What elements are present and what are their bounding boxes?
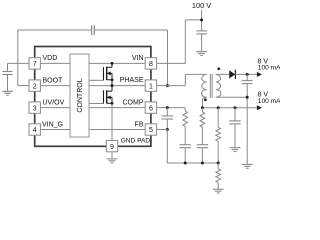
- svg-text:6: 6: [149, 105, 153, 112]
- wire UV/OV internal: [40, 107, 70, 109]
- wire VDD pin 7 to bypass capacitor: [8, 62, 29, 64]
- svg-text:GND PAD: GND PAD: [121, 137, 151, 144]
- wire FB pin 5: [157, 129, 168, 131]
- node Q1 drain to VIN rail: [111, 62, 114, 65]
- resistor compensation: [183, 108, 188, 145]
- ground GND pad: [107, 159, 118, 163]
- capacitor input 100 V: [196, 31, 207, 52]
- transistor Q2 low side MOSFET: [104, 86, 113, 104]
- wire COMP internal: [89, 107, 145, 109]
- pin 3 UV/OV: [29, 102, 40, 113]
- svg-text:1: 1: [149, 83, 153, 90]
- svg-text:VIN: VIN: [132, 55, 144, 62]
- ground feedback divider: [213, 189, 224, 193]
- arrow primary output: [257, 105, 262, 110]
- wire gate drive high side: [89, 79, 104, 81]
- wire pin 9 to ground: [111, 152, 113, 159]
- pin 8 VIN: [145, 58, 156, 69]
- wire gate drive low side: [89, 103, 104, 105]
- wire COMP pin 6: [157, 107, 186, 109]
- resistor feedforward: [200, 108, 205, 145]
- transformer secondary winding: [216, 74, 221, 97]
- svg-text:4: 4: [33, 127, 37, 134]
- ground primary output cap: [230, 148, 241, 152]
- svg-text:5: 5: [149, 127, 153, 134]
- node compensation cap to rail: [184, 162, 187, 165]
- node feedback divider top junction: [217, 106, 220, 109]
- transformer core: [210, 74, 212, 98]
- svg-text:100 V: 100 V: [192, 1, 211, 10]
- wire secondary top to diode: [216, 73, 229, 75]
- transformer primary winding: [202, 74, 207, 97]
- pin 4 VIN_G: [29, 124, 40, 135]
- svg-text:2: 2: [33, 83, 37, 90]
- pin 5 FB: [145, 124, 156, 135]
- svg-text:FB: FB: [135, 121, 144, 128]
- block CONTROL: [70, 54, 89, 137]
- capacitor primary output: [229, 108, 240, 148]
- svg-text:7: 7: [33, 61, 37, 68]
- wire low side source to GND pad: [111, 103, 113, 140]
- node PHASE bootstrap junction: [166, 84, 169, 87]
- wire FB internal: [89, 129, 145, 131]
- node feedforward cap to rail: [201, 162, 204, 165]
- capacitor VDD bypass: [2, 63, 12, 91]
- node isolated output cap junction: [246, 73, 249, 76]
- node FB junction: [166, 128, 169, 131]
- svg-text:100 mA: 100 mA: [258, 64, 280, 71]
- svg-text:100 mA: 100 mA: [258, 98, 280, 105]
- wire BOOT internal: [40, 85, 70, 87]
- wire bootstrap cap to PHASE node: [94, 30, 167, 86]
- ground VDD bypass: [2, 91, 13, 95]
- svg-text:COMP: COMP: [123, 100, 144, 107]
- svg-text:VIN_G: VIN_G: [42, 121, 63, 128]
- pin 9 GND PAD: [106, 140, 117, 151]
- wire VIN_G internal: [40, 129, 70, 131]
- pin 1 PHASE: [145, 80, 156, 91]
- resistor feedback lower: [216, 163, 221, 189]
- ground isolated output: [242, 164, 253, 168]
- wire secondary bottom return: [216, 96, 247, 98]
- svg-text:UV/OV: UV/OV: [43, 99, 65, 106]
- pin 2 BOOT: [29, 80, 40, 91]
- node Q2 source body tie: [111, 102, 114, 105]
- wire PHASE internal rail: [89, 85, 145, 87]
- node feedback divider mid: [217, 162, 220, 165]
- polarity dot secondary: [217, 67, 220, 70]
- svg-text:PHASE: PHASE: [120, 77, 144, 84]
- wire FB to bottom rail: [167, 130, 218, 164]
- capacitor compensation: [180, 145, 191, 163]
- wire VDD internal: [40, 62, 70, 64]
- node output cap junction: [234, 106, 237, 109]
- node Q1 source body tie: [111, 78, 114, 81]
- wire primary output rail: [202, 107, 257, 109]
- wire PHASE pin 1 to transformer: [157, 74, 207, 85]
- node secondary return junction: [246, 96, 249, 99]
- arrow isolated output: [257, 72, 262, 77]
- svg-text:VDD: VDD: [43, 55, 58, 62]
- node PHASE switch junction: [111, 84, 114, 87]
- svg-text:9: 9: [110, 144, 114, 151]
- pin 7 VDD: [29, 58, 40, 69]
- ground input capacitor: [196, 52, 207, 56]
- polarity dot primary: [204, 98, 207, 101]
- wire 100 V feed: [185, 10, 201, 64]
- node COMP junction: [166, 106, 169, 109]
- node 100 V junction: [200, 18, 203, 21]
- pin 6 COMP: [145, 102, 156, 113]
- wire VIN internal rail: [89, 62, 145, 64]
- svg-text:8: 8: [149, 61, 153, 68]
- capacitor bootstrap BOOT to PHASE: [92, 25, 95, 35]
- wire VIN pin 8 to supply riser: [157, 62, 186, 64]
- capacitor feedforward: [197, 145, 208, 163]
- capacitor COMP to FB: [162, 108, 174, 130]
- wire BOOT pin 2 riser: [18, 30, 92, 86]
- svg-text:BOOT: BOOT: [43, 77, 64, 84]
- svg-text:3: 3: [33, 105, 37, 112]
- wire diode to isolated output: [235, 73, 257, 75]
- capacitor isolated output: [242, 74, 253, 164]
- transistor Q1 high side MOSFET: [104, 63, 113, 85]
- svg-text:CONTROL: CONTROL: [77, 78, 84, 112]
- wire primary bottom to output rail: [202, 97, 206, 107]
- IC U1 switching regulator outline: [35, 47, 151, 147]
- resistor feedback upper: [216, 108, 221, 163]
- node primary bottom junction: [201, 106, 204, 109]
- diode rectifier: [229, 70, 235, 79]
